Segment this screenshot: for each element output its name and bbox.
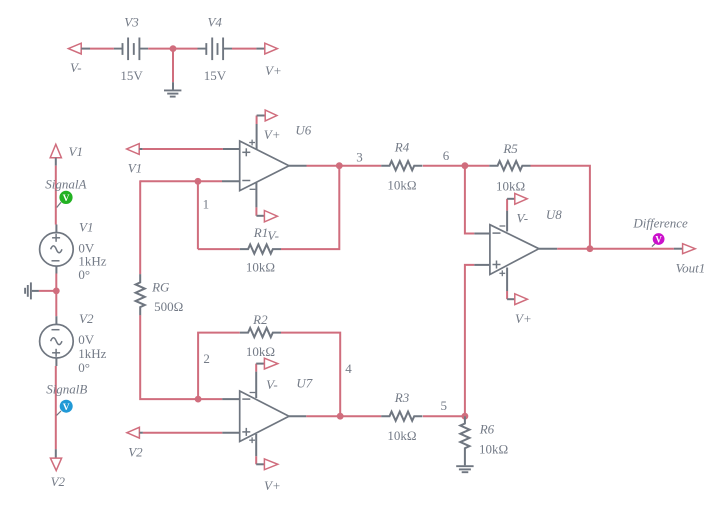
wire V1 to U6 plus input [143, 148, 223, 150]
svg-text:V2: V2 [51, 474, 66, 489]
op-amp U8 [490, 225, 539, 275]
pin stub U6 minus input [222, 180, 240, 182]
svg-text:2: 2 [203, 351, 210, 366]
wire node5 up to U8 plus input [465, 265, 474, 416]
battery V3 [114, 38, 148, 61]
resistor R5 [489, 161, 530, 170]
wire V1 source to junction [55, 274, 57, 317]
power marker minus (U7 top) [250, 392, 256, 394]
svg-text:V4: V4 [207, 15, 222, 30]
svg-text:V1: V1 [69, 144, 83, 159]
svg-text:500Ω: 500Ω [154, 299, 183, 314]
svg-text:15V: 15V [120, 68, 143, 83]
power pin V- (U6) [256, 183, 264, 216]
wire V4 to V+ [232, 48, 256, 50]
source V2 [40, 316, 74, 366]
junction sources mid [53, 288, 60, 295]
connector V+ (U7) [264, 459, 277, 470]
svg-text:V+: V+ [264, 127, 281, 142]
connector V- (U6) [264, 211, 277, 222]
ground (R6) [456, 466, 473, 472]
svg-text:V-: V- [517, 211, 529, 226]
power pin V- (U7) [256, 364, 264, 398]
svg-text:V: V [655, 234, 662, 244]
svg-text:15V: 15V [204, 68, 227, 83]
svg-text:0°: 0° [78, 267, 90, 282]
wire R4 to node 6 [423, 165, 465, 167]
wire to R1 left [198, 248, 240, 250]
svg-text:3: 3 [356, 150, 363, 165]
svg-text:U6: U6 [295, 123, 311, 138]
pin stub U6 plus input [223, 148, 240, 150]
pin stub U8 output [539, 248, 557, 250]
wire R5 to output node [531, 166, 590, 249]
wire R3 to node 5 [423, 415, 465, 417]
resistor R3 [381, 412, 422, 421]
probe Difference [652, 233, 665, 247]
junction node 6 [462, 162, 469, 169]
svg-text:V2: V2 [128, 445, 143, 460]
svg-text:1kHz: 1kHz [78, 346, 106, 361]
svg-text:V-: V- [266, 377, 278, 392]
svg-text:4: 4 [345, 361, 352, 376]
wire node6 to R5 [465, 165, 489, 167]
ground (sources, rotated) [25, 282, 31, 299]
svg-text:5: 5 [441, 398, 448, 413]
resistor R1 [240, 245, 281, 254]
probe SignalA [57, 191, 73, 208]
wire V2 source to connector [55, 366, 57, 449]
power marker plus (U6 top) [249, 140, 255, 146]
connector V2 (U7 input) [127, 427, 143, 438]
connector V- (U8) [515, 193, 527, 204]
op-amp U6 [240, 141, 289, 191]
connector V- [68, 43, 90, 54]
svg-text:R3: R3 [394, 390, 410, 405]
resistor RG [136, 274, 145, 315]
wire U6 minus to RG [139, 180, 141, 274]
svg-text:R2: R2 [252, 312, 268, 327]
svg-text:R5: R5 [502, 141, 518, 156]
connector V+ (U8) [515, 294, 528, 305]
wire V- to V3 [90, 48, 114, 50]
svg-text:RG: RG [151, 280, 170, 295]
wire U7 output to R3 [306, 415, 381, 417]
connector V+ (U6) [265, 110, 277, 121]
power marker plus (U8 bottom) [499, 270, 505, 276]
svg-text:SignalA: SignalA [45, 177, 86, 192]
svg-text:10kΩ: 10kΩ [479, 442, 508, 457]
connector V1 (U6 input) [127, 144, 143, 155]
junction U6 minus node [195, 178, 202, 185]
connector V1 (top) [50, 144, 61, 165]
svg-text:Vout1: Vout1 [676, 260, 706, 275]
power pin V- (U8) [507, 199, 515, 232]
wire U8 output to Vout1 [557, 248, 674, 250]
wire node1 down to R1 [197, 181, 199, 249]
wire V1 connector to source [55, 166, 57, 225]
probe SignalB [57, 400, 73, 416]
svg-text:6: 6 [443, 148, 450, 163]
svg-text:10kΩ: 10kΩ [387, 178, 416, 193]
wire junction to V4 [173, 48, 198, 50]
wire node2 up to R2 [198, 333, 240, 400]
svg-text:0V: 0V [78, 332, 95, 347]
resistor R6 [460, 416, 469, 465]
power marker minus (U8 top) [500, 225, 506, 227]
wire RG to U7 minus input [140, 315, 222, 399]
wire U6 output to R4 [307, 165, 382, 167]
svg-text:10kΩ: 10kΩ [387, 428, 416, 443]
resistor R4 [381, 161, 422, 170]
junction U7 minus node [195, 396, 202, 403]
svg-text:V2: V2 [79, 311, 94, 326]
svg-text:1: 1 [203, 196, 210, 211]
resistor R2 [240, 328, 281, 337]
junction node 5 [462, 413, 469, 420]
svg-text:V+: V+ [265, 63, 282, 78]
pin stub U6 output [289, 165, 307, 167]
svg-text:10kΩ: 10kΩ [246, 344, 275, 359]
junction output node [587, 245, 594, 252]
junction node 3 [336, 162, 343, 169]
svg-text:10kΩ: 10kΩ [496, 179, 525, 194]
connector V2 (bottom) [50, 449, 61, 470]
power pin V+ (U7) [256, 434, 264, 464]
wire R1 right to node3 column [281, 166, 339, 249]
pin stub U7 output [289, 415, 306, 417]
svg-text:0°: 0° [78, 360, 90, 375]
connector V- (U7) [264, 358, 277, 369]
pin stub U7 plus input [222, 432, 239, 434]
svg-text:V3: V3 [124, 15, 139, 30]
power pin V+ (U6) [257, 116, 266, 150]
svg-text:V1: V1 [128, 161, 142, 176]
pin stub U7 minus input [222, 398, 240, 400]
wire junction to ground [172, 49, 174, 90]
pin stub U8 plus input [474, 264, 490, 266]
pin stub U8 minus input [474, 233, 490, 235]
wire node6 down to U8 minus input [465, 166, 474, 234]
svg-text:V: V [63, 403, 70, 413]
battery V4 [198, 38, 233, 61]
wire junction to left ground [32, 290, 57, 292]
svg-text:Difference: Difference [632, 216, 688, 231]
svg-text:V+: V+ [264, 478, 281, 493]
svg-text:U8: U8 [546, 207, 562, 222]
source V1 [40, 225, 74, 274]
power marker plus (U7 bottom) [249, 437, 255, 443]
svg-text:R1: R1 [253, 225, 268, 240]
ground (supply mid) [164, 90, 181, 96]
svg-text:V1: V1 [79, 220, 93, 235]
wire V2 to U7 plus input [143, 432, 222, 434]
junction battery mid [170, 45, 177, 52]
junction node 4 [337, 413, 344, 420]
svg-text:U7: U7 [296, 376, 312, 391]
connector Vout1 [674, 244, 695, 254]
connector V+ [256, 43, 277, 54]
power pin V+ (U8) [507, 268, 515, 300]
svg-text:V-: V- [267, 228, 279, 243]
wire U6 minus input [140, 180, 222, 182]
wire R2 right to node4 column [281, 333, 340, 417]
power marker minus (U6 bottom) [250, 188, 256, 190]
svg-text:R4: R4 [394, 140, 410, 155]
svg-text:SignalB: SignalB [46, 382, 87, 397]
op-amp U7 [240, 391, 289, 442]
svg-text:R6: R6 [479, 421, 495, 436]
svg-text:V-: V- [70, 60, 82, 75]
svg-text:10kΩ: 10kΩ [246, 259, 275, 274]
wire V3 to mid junction [148, 48, 173, 50]
svg-text:V: V [63, 194, 70, 204]
svg-text:V+: V+ [515, 311, 532, 326]
